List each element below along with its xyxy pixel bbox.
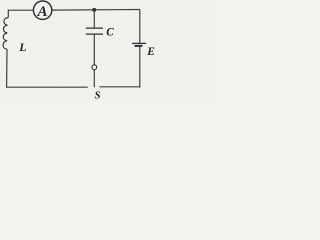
switch S — [92, 65, 97, 70]
capacitor C — [86, 28, 103, 34]
wire left lower segment — [6, 49, 8, 87]
wire switch lower stub — [93, 70, 95, 88]
battery E — [132, 43, 146, 46]
wire right lower segment — [139, 47, 141, 87]
ammeter U1 — [33, 1, 51, 19]
junction node — [92, 8, 96, 12]
wire capacitor upper stub — [93, 10, 95, 28]
wire bottom-left segment — [6, 86, 88, 88]
wire right upper segment — [139, 10, 141, 44]
wire bottom-right segment — [100, 86, 141, 88]
wire left upper stub — [7, 10, 9, 18]
wire top-left segment — [8, 9, 33, 11]
wire capacitor lower stub — [93, 35, 95, 65]
wire top-right segment — [52, 9, 140, 12]
inductor L — [3, 18, 8, 50]
